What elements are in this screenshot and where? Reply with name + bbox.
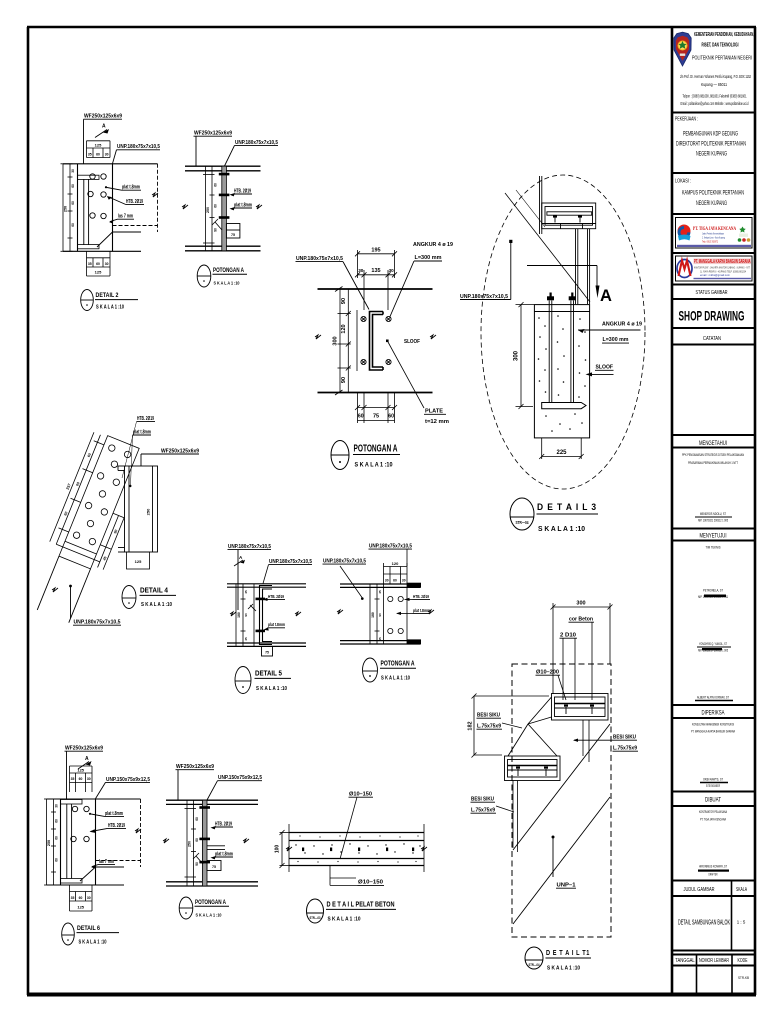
label plat t.8mm xyxy=(211,851,234,859)
svg-text:195: 195 xyxy=(371,248,380,254)
top dimension box xyxy=(70,766,93,792)
svg-text:SLOOF: SLOOF xyxy=(404,339,420,345)
long tail lines xyxy=(37,556,59,610)
label UNP.150x75x9x12,5 xyxy=(207,775,262,800)
label HTB right xyxy=(405,594,431,601)
svg-text:DETAIL SAMBUNGAN BALOK: DETAIL SAMBUNGAN BALOK xyxy=(678,918,730,927)
weld mark xyxy=(248,604,256,611)
svg-text:HTB. 2Ø19: HTB. 2Ø19 xyxy=(108,823,125,829)
svg-text:WF250x125x6x9: WF250x125x6x9 xyxy=(84,114,122,120)
svg-text:UNP.180x75x7x10,5: UNP.180x75x7x10,5 xyxy=(228,544,271,550)
svg-text:SLOOF: SLOOF xyxy=(596,365,614,371)
label UNP top xyxy=(369,544,413,567)
svg-text:MENDROS NDOLU, ST: MENDROS NDOLU, ST xyxy=(700,511,726,516)
svg-text:45: 45 xyxy=(244,637,248,641)
left dimension chain xyxy=(44,799,56,885)
svg-text:Email : politanikoe@yahoo.com: Email : politanikoe@yahoo.com Website : … xyxy=(681,101,749,106)
title bubble POTONGAN A mid xyxy=(363,658,417,682)
svg-text:Kupang — 85011: Kupang — 85011 xyxy=(701,82,728,87)
dashed ellipse xyxy=(481,175,645,489)
svg-text:OKBI RAWTS, ST: OKBI RAWTS, ST xyxy=(703,777,723,782)
dashed continuation xyxy=(80,799,141,881)
black flange bars xyxy=(407,583,421,645)
svg-text:UNP.150x75x9x12,5: UNP.150x75x9x12,5 xyxy=(218,775,262,781)
svg-text:UNP.180x75x7x10,5: UNP.180x75x7x10,5 xyxy=(460,294,509,300)
label D10-200 xyxy=(536,670,567,701)
label UNP left xyxy=(323,559,367,600)
channel web xyxy=(67,804,72,879)
channel web xyxy=(84,179,89,244)
svg-text:HTB. 2Ø19: HTB. 2Ø19 xyxy=(234,188,251,194)
svg-text:DIBUAT: DIBUAT xyxy=(705,797,721,804)
svg-text:100: 100 xyxy=(275,845,281,854)
C channel xyxy=(370,312,384,371)
svg-text:182: 182 xyxy=(468,721,474,730)
top flange plate xyxy=(78,175,100,249)
svg-text:HTB. 2Ø19: HTB. 2Ø19 xyxy=(126,199,143,205)
svg-text:PEMBANGUNAN KDP GEDUNG: PEMBANGUNAN KDP GEDUNG xyxy=(683,132,738,138)
svg-text:Telp. 0813 392872: Telp. 0813 392872 xyxy=(702,240,718,244)
anchor heads xyxy=(547,293,576,301)
svg-text:35: 35 xyxy=(71,896,75,900)
svg-text:PT. TIGA JAYA KENCANA: PT. TIGA JAYA KENCANA xyxy=(693,227,736,232)
dim 120 / 30 60 30 xyxy=(384,563,408,584)
svg-text:POTONGAN A: POTONGAN A xyxy=(354,444,398,455)
svg-text:NEGERI KUPANG: NEGERI KUPANG xyxy=(696,201,727,207)
bolt holes on gusset xyxy=(72,444,131,546)
lower beam bolts xyxy=(516,767,548,777)
dim chain xyxy=(236,584,246,647)
label plat t.8mm xyxy=(105,185,141,191)
svg-text:WF250x125x6x9: WF250x125x6x9 xyxy=(176,764,214,770)
svg-text:45: 45 xyxy=(378,590,382,594)
left dimension chain xyxy=(61,164,73,252)
label WF250x125x6x9 xyxy=(141,448,199,466)
dashed rect xyxy=(512,664,611,937)
label BESI SIKU left top xyxy=(477,713,523,730)
TITLE BLOCK xyxy=(672,27,755,995)
svg-text:UNP.180x75x7x10,5: UNP.180x75x7x10,5 xyxy=(74,620,121,626)
svg-text:60: 60 xyxy=(71,223,75,227)
label HTB xyxy=(263,594,286,601)
svg-text:D E T A I L PELAT BETON: D E T A I L PELAT BETON xyxy=(327,902,395,909)
svg-text:POLITEKNIK PERTANIAN NEGERI: POLITEKNIK PERTANIAN NEGERI xyxy=(692,56,752,62)
svg-text:S K A L A 1 :10: S K A L A 1 :10 xyxy=(214,280,240,286)
svg-text:KONSULTAN MANAJEMEN KONSTRUKSI: KONSULTAN MANAJEMEN KONSTRUKSI xyxy=(692,722,734,727)
svg-text:L=300 mm: L=300 mm xyxy=(415,255,442,261)
svg-text:PEKERJAAN :: PEKERJAAN : xyxy=(675,117,698,123)
svg-text:125: 125 xyxy=(95,270,102,275)
svg-text:PT. MANGGALA KARYA BANGUN SARA: PT. MANGGALA KARYA BANGUN SARANA xyxy=(691,729,735,734)
svg-text:S K A L A 1 :10: S K A L A 1 :10 xyxy=(96,304,124,310)
bolts xyxy=(72,806,77,811)
svg-text:35: 35 xyxy=(88,152,92,156)
svg-text:30: 30 xyxy=(389,268,395,273)
svg-text:HTB. 2Ø19: HTB. 2Ø19 xyxy=(215,821,232,827)
vertical beam right xyxy=(118,466,158,552)
label UNP-1 xyxy=(552,836,577,889)
svg-text:90: 90 xyxy=(195,862,199,866)
svg-text:300: 300 xyxy=(576,601,585,607)
svg-text:KODE: KODE xyxy=(738,958,748,964)
verticals below lower beam xyxy=(513,781,518,853)
svg-text:45: 45 xyxy=(378,637,382,641)
hanger verticals xyxy=(540,176,542,234)
svg-text:plat t.8mm: plat t.8mm xyxy=(215,851,233,857)
title bubble DETAIL PELAT BETON xyxy=(307,899,397,923)
horizontal line mid xyxy=(527,265,597,267)
label plat t.8mm xyxy=(129,429,151,487)
politani logo xyxy=(674,32,691,66)
svg-text:D E T A I L 3: D E T A I L 3 xyxy=(537,501,597,512)
svg-text:PPK PENGAWASAN STRATEGIS DITJE: PPK PENGAWASAN STRATEGIS DITJEN PELAKSAN… xyxy=(682,453,744,457)
label WF250x125x6x9 xyxy=(194,131,233,167)
label UNP.150x75x9x12,5 xyxy=(96,777,151,799)
svg-text:DETAIL 5: DETAIL 5 xyxy=(255,669,282,678)
label BESI SIKU right xyxy=(573,735,638,752)
svg-text:35: 35 xyxy=(71,777,75,781)
bottom plate box 125 xyxy=(127,552,150,569)
svg-text:STR—04: STR—04 xyxy=(529,962,541,967)
bolts xyxy=(256,598,266,633)
svg-text:UNP.180x75x7x10,5: UNP.180x75x7x10,5 xyxy=(323,559,366,565)
svg-text:plat t.8mm: plat t.8mm xyxy=(268,622,285,628)
svg-text:75: 75 xyxy=(212,865,216,869)
section flag A xyxy=(596,286,613,306)
label D10-150 top xyxy=(340,792,373,860)
svg-text:300: 300 xyxy=(514,350,520,361)
svg-text:S K A L A 1 :10: S K A L A 1 :10 xyxy=(196,912,222,918)
beam box xyxy=(542,203,596,229)
logo PT TIGA JAYA KENCANA xyxy=(676,218,753,249)
dim 300 top xyxy=(551,603,613,694)
svg-text:60: 60 xyxy=(55,858,59,862)
end breaks xyxy=(286,847,292,851)
svg-text:Ø10–150: Ø10–150 xyxy=(358,880,383,886)
svg-text:L.75x75x9: L.75x75x9 xyxy=(471,808,495,814)
svg-text:60: 60 xyxy=(71,201,75,205)
svg-text:S K A L A 1 :10: S K A L A 1 :10 xyxy=(328,917,361,923)
svg-text:KEMENTERIAN PENDIDIKAN, KEBUDA: KEMENTERIAN PENDIDIKAN, KEBUDAYAAN, xyxy=(694,32,754,38)
break symbols xyxy=(182,205,188,209)
svg-text:Ø10–200: Ø10–200 xyxy=(536,670,559,676)
dim 100 left xyxy=(280,830,290,868)
svg-text:MENGETAHUI: MENGETAHUI xyxy=(699,440,727,447)
dim 30 135 30 xyxy=(355,270,397,310)
svg-text:WF250x125x6x9: WF250x125x6x9 xyxy=(65,746,103,752)
box 75 below xyxy=(262,646,273,656)
svg-text:ANGKUR 4 ø 19: ANGKUR 4 ø 19 xyxy=(602,322,643,328)
leader UNP bottom xyxy=(69,585,121,626)
label plat t.8mm xyxy=(89,811,124,817)
svg-text:90: 90 xyxy=(378,613,382,617)
dim 225 bottom xyxy=(539,438,584,459)
svg-text:KONTRAKTOR PELAKSANA: KONTRAKTOR PELAKSANA xyxy=(699,809,727,814)
svg-text:90: 90 xyxy=(341,377,347,383)
svg-text:60: 60 xyxy=(214,183,218,187)
bottom dimension box xyxy=(70,885,93,911)
svg-text:60: 60 xyxy=(214,204,218,208)
svg-text:1 : 5: 1 : 5 xyxy=(737,920,746,925)
gusset plate outline xyxy=(59,436,139,569)
bottom dims 60 75 60 xyxy=(355,393,397,424)
svg-text:90: 90 xyxy=(244,613,248,617)
svg-text:UNP.180x75x7x10,5: UNP.180x75x7x10,5 xyxy=(235,140,278,146)
label HTB. 2D19 xyxy=(107,196,144,205)
svg-text:30: 30 xyxy=(87,896,91,900)
svg-text:DIPERIKSA: DIPERIKSA xyxy=(702,710,726,717)
svg-text:125: 125 xyxy=(135,559,142,564)
beam band xyxy=(227,584,306,647)
svg-text:75: 75 xyxy=(231,233,235,237)
svg-text:125: 125 xyxy=(77,904,84,909)
svg-text:60: 60 xyxy=(79,896,83,900)
svg-text:L.75x75x9: L.75x75x9 xyxy=(613,746,637,752)
svg-text:60: 60 xyxy=(96,152,100,156)
svg-text:225: 225 xyxy=(556,450,567,456)
svg-text:250: 250 xyxy=(188,841,192,847)
column dividers xyxy=(697,881,733,996)
svg-text:250: 250 xyxy=(146,508,151,515)
svg-text:WF250x125x6x9: WF250x125x6x9 xyxy=(194,131,232,137)
plate dot xyxy=(386,340,389,343)
svg-text:60: 60 xyxy=(358,413,364,419)
dashed continuation lines xyxy=(97,164,158,247)
dim chain xyxy=(203,166,215,251)
svg-text:D E T A I L T1: D E T A I L T1 xyxy=(546,948,590,957)
svg-text:TIM TEKNIS: TIM TEKNIS xyxy=(706,545,721,550)
svg-text:NOMOR LEMBAR: NOMOR LEMBAR xyxy=(699,958,729,964)
break symbols xyxy=(163,839,169,843)
title bubble POTONGAN A center xyxy=(331,441,400,470)
label UNP top left xyxy=(228,544,272,610)
svg-text:STR—04: STR—04 xyxy=(516,520,529,525)
svg-text:las 7 mm: las 7 mm xyxy=(118,214,133,220)
stiffener box 75 xyxy=(226,224,240,239)
break symbol left xyxy=(337,610,343,614)
label UNP.180x75x7x10,5 xyxy=(113,144,161,163)
channel extension line xyxy=(356,310,358,371)
svg-text:S K A L A 1 :10: S K A L A 1 :10 xyxy=(355,462,393,469)
label D10-150 bottom xyxy=(330,866,384,886)
svg-text:PRASARANA PERMUKIMAN WILAYAH 1: PRASARANA PERMUKIMAN WILAYAH 1 NTT xyxy=(688,461,738,465)
beam band xyxy=(166,800,258,886)
svg-text:DIREKTORAT POLITEKNIK PERTANIA: DIREKTORAT POLITEKNIK PERTANIAN xyxy=(676,142,746,148)
svg-text:30: 30 xyxy=(87,777,91,781)
label las 7 mm xyxy=(109,214,134,224)
svg-text:STR—03: STR—03 xyxy=(310,915,322,920)
svg-text:30: 30 xyxy=(71,169,75,173)
svg-text:180: 180 xyxy=(371,612,375,618)
anchor rods xyxy=(549,301,573,403)
label WF250x125x6x9 xyxy=(84,114,123,164)
section flag A small xyxy=(234,555,245,566)
svg-text:30: 30 xyxy=(105,152,109,156)
svg-text:30: 30 xyxy=(358,268,364,273)
svg-text:60: 60 xyxy=(195,838,199,842)
label plat xyxy=(264,622,286,630)
svg-text:UNP.180x75x7x10,5: UNP.180x75x7x10,5 xyxy=(269,559,312,565)
bolts on web xyxy=(199,806,210,863)
svg-text:plat t.8mm: plat t.8mm xyxy=(122,185,140,191)
base plate xyxy=(542,403,586,409)
label HTB. 2D19 xyxy=(211,821,234,829)
dim 300 left xyxy=(516,302,535,409)
svg-text:t=12 mm: t=12 mm xyxy=(425,419,449,425)
svg-text:30: 30 xyxy=(55,804,59,808)
break symbols xyxy=(230,612,236,616)
rebar dashes in band xyxy=(302,848,414,852)
svg-text:2. Kelapa Lima - Kota Kupang: 2. Kelapa Lima - Kota Kupang xyxy=(702,236,725,240)
bolts on web xyxy=(219,173,230,219)
svg-text:UNP–1: UNP–1 xyxy=(557,883,576,889)
svg-text:cor Beton: cor Beton xyxy=(569,617,593,623)
svg-text:30: 30 xyxy=(105,262,109,266)
top dimension box 125 / 35 60 30 xyxy=(87,141,111,158)
connecting verticals between steps xyxy=(583,720,589,762)
extension lines ends xyxy=(289,824,424,872)
logo PT MANGGALA xyxy=(676,256,753,281)
svg-text:las 7 mm: las 7 mm xyxy=(99,859,114,865)
svg-text:SHOP DRAWING: SHOP DRAWING xyxy=(679,308,745,324)
beam band xyxy=(340,584,421,644)
svg-text:60: 60 xyxy=(388,413,394,419)
title bubble DETAIL 4 xyxy=(122,586,176,609)
channel C xyxy=(260,586,273,645)
title bubble POTONGAN A bottom xyxy=(179,897,229,919)
svg-text:plat t.8mm: plat t.8mm xyxy=(413,608,430,614)
weld arrow xyxy=(212,219,222,230)
label las 7 mm xyxy=(91,859,115,869)
label cor Beton xyxy=(569,617,595,701)
label SLOOF right xyxy=(586,365,614,377)
svg-text:120: 120 xyxy=(392,561,399,566)
title bubble POTONGAN A xyxy=(197,265,247,287)
label HTB. 2D19 xyxy=(90,823,127,833)
svg-text:2 D10: 2 D10 xyxy=(560,633,576,639)
weld arrow xyxy=(193,853,203,864)
svg-text:ALBERT ALPIN KONWAY, ST: ALBERT ALPIN KONWAY, ST xyxy=(697,695,729,700)
beam body xyxy=(47,799,141,885)
bolts xyxy=(90,174,95,179)
svg-text:60: 60 xyxy=(393,579,397,583)
bottom dimension box xyxy=(87,251,111,276)
label UNP.180x75x7x10,5 xyxy=(224,140,278,167)
svg-text:A: A xyxy=(102,124,106,130)
svg-text:S K A L A 1 :10: S K A L A 1 :10 xyxy=(547,966,580,972)
svg-text:plat t.8mm: plat t.8mm xyxy=(105,811,123,817)
title bubble DETAIL 2 xyxy=(81,290,138,311)
svg-text:UNP.150x75x9x12,5: UNP.150x75x9x12,5 xyxy=(106,777,150,783)
svg-text:NEGERI KUPANG: NEGERI KUPANG xyxy=(696,152,727,158)
svg-text:NIP. 19670321 200312 1 005: NIP. 19670321 200312 1 005 xyxy=(698,519,728,523)
svg-text:S K A L A 1 :10: S K A L A 1 :10 xyxy=(381,676,410,682)
svg-text:S K A L A 1 :10: S K A L A 1 :10 xyxy=(141,602,172,608)
svg-text:WF250x125x6x9: WF250x125x6x9 xyxy=(161,448,199,454)
svg-text:KANTOR PUSAT : JAKARTA KANTO: KANTOR PUSAT : JAKARTA KANTOR CABANG : K… xyxy=(694,267,750,270)
svg-text:ANGKUR 4 ø 19: ANGKUR 4 ø 19 xyxy=(413,242,454,248)
svg-text:A: A xyxy=(600,287,612,305)
sloof concrete column xyxy=(534,305,589,438)
svg-text:DRAFTER: DRAFTER xyxy=(709,873,718,877)
svg-text:PETRONELA, ST: PETRONELA, ST xyxy=(703,588,723,593)
title bubble DETAIL T1 xyxy=(525,947,591,972)
label 2 D10 xyxy=(560,633,578,701)
lower step beam xyxy=(505,756,561,781)
upper step beam xyxy=(552,694,609,721)
beam bolts xyxy=(553,215,582,222)
svg-text:30: 30 xyxy=(402,579,406,583)
svg-text:A: A xyxy=(85,756,89,762)
stipple band xyxy=(295,835,420,862)
svg-text:HIRONIMUS KONWAY, ST: HIRONIMUS KONWAY, ST xyxy=(699,864,727,869)
long diagonal xyxy=(505,193,590,302)
svg-text:L=300 mm: L=300 mm xyxy=(603,337,629,343)
svg-text:60: 60 xyxy=(71,184,75,188)
section flag A xyxy=(95,124,109,138)
svg-text:TANGGAL: TANGGAL xyxy=(675,958,695,964)
svg-text:Jalan Perintis Kemerdekaan: Jalan Perintis Kemerdekaan xyxy=(702,232,724,236)
svg-text:UNP.180x75x7x10,5: UNP.180x75x7x10,5 xyxy=(117,144,160,150)
label WF250x125x6x9 xyxy=(65,746,104,800)
vertical drops to sloof xyxy=(576,229,590,304)
title bubble DETAIL 3 xyxy=(510,498,598,533)
dim 195 xyxy=(355,250,397,278)
leader dot UNP xyxy=(460,240,512,300)
svg-text:SKALA: SKALA xyxy=(736,887,747,893)
svg-text:STATUS GAMBAR: STATUS GAMBAR xyxy=(696,290,728,296)
svg-text:JUDUL GAMBAR: JUDUL GAMBAR xyxy=(684,887,715,893)
label BESI SIKU left bottom xyxy=(471,797,515,814)
svg-text:BESI SIKU: BESI SIKU xyxy=(613,735,636,741)
flange plates xyxy=(61,800,83,884)
svg-text:S K A L A 1 :10: S K A L A 1 :10 xyxy=(256,686,287,692)
svg-text:S K A L A 1 :10: S K A L A 1 :10 xyxy=(538,526,585,533)
beam top flange lines xyxy=(185,166,261,251)
extension vertical xyxy=(253,584,255,646)
svg-text:60: 60 xyxy=(96,262,100,266)
label HTB 2D19 xyxy=(122,416,155,478)
svg-text:BESI SIKU: BESI SIKU xyxy=(471,797,494,803)
svg-text:75: 75 xyxy=(265,651,269,655)
gusset dim lines xyxy=(47,432,149,569)
svg-text:125: 125 xyxy=(95,143,102,148)
beam band xyxy=(318,289,433,393)
svg-text:CATATAN: CATATAN xyxy=(703,336,721,342)
slanted plate group xyxy=(20,428,151,627)
svg-text:250: 250 xyxy=(47,840,51,846)
title bubble DETAIL 6 xyxy=(62,923,119,945)
bolts with X xyxy=(361,316,366,321)
svg-text:60: 60 xyxy=(79,777,83,781)
dim chain xyxy=(370,584,380,644)
break on diagonal xyxy=(52,588,58,592)
svg-text:email : mkbs@gmail.com: email : mkbs@gmail.com xyxy=(700,274,730,277)
label HTB. 2D19 xyxy=(230,188,253,196)
svg-text:DETAIL 6: DETAIL 6 xyxy=(77,925,100,932)
svg-text:35: 35 xyxy=(88,262,92,266)
svg-text:90: 90 xyxy=(214,228,218,232)
svg-text:60: 60 xyxy=(55,819,59,823)
stiffener piece xyxy=(207,846,225,871)
svg-text:POTONGAN A: POTONGAN A xyxy=(195,899,226,906)
label UNP second xyxy=(263,559,312,584)
svg-text:RISET, DAN TEKNOLOGI: RISET, DAN TEKNOLOGI xyxy=(702,43,739,49)
slab outline xyxy=(289,833,424,866)
dim 182 left xyxy=(472,694,550,758)
row dividers xyxy=(672,113,755,966)
svg-text:plat t.8mm: plat t.8mm xyxy=(234,202,252,208)
